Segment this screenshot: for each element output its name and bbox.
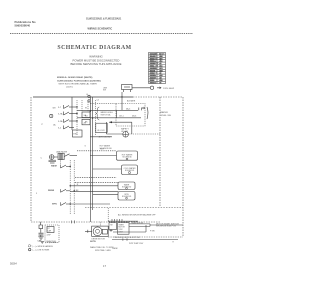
horizontal wires to right [70, 156, 121, 205]
header publications no [15, 20, 36, 28]
svg-text:R: R [173, 241, 175, 243]
svg-text:GLWS1233AS1 & FLWS1233AS1: GLWS1233AS1 & FLWS1233AS1 [86, 18, 122, 21]
svg-text:W: W [85, 107, 87, 109]
capacitor bars below filter [49, 159, 57, 161]
svg-text:P: P [42, 124, 44, 126]
power cord line [132, 87, 150, 89]
svg-text:WASH TIME: FILL TO SPIN: WASH TIME: FILL TO SPIN [90, 246, 114, 249]
svg-text:ALL WIRING SHOWN WITH MACHINE: ALL WIRING SHOWN WITH MACHINE OFF [118, 213, 156, 216]
timer console box bottom [31, 221, 160, 223]
bottom right pressure block [107, 208, 109, 221]
timer row labels [53, 107, 64, 130]
svg-text:60HZ: 60HZ [119, 231, 123, 233]
svg-text:SCHEMATIC DIAGRAM: SCHEMATIC DIAGRAM [57, 45, 131, 51]
cold water solenoid box [122, 165, 138, 175]
svg-text:( ⊥ ) = GND: ( ⊥ ) = GND [46, 241, 57, 244]
svg-text:DRIVE MOTOR: DRIVE MOTOR [92, 238, 106, 240]
svg-text:WASH: WASH [51, 165, 58, 168]
timer contact boxes [82, 112, 90, 118]
timer console box top [33, 96, 133, 98]
svg-text:WATER: WATER [160, 111, 168, 114]
water level brace and label [96, 107, 99, 120]
bus bottom ticks [71, 220, 73, 223]
svg-text:P SW: P SW [150, 230, 155, 232]
svg-text:AGITATE: AGITATE [127, 100, 136, 103]
legend symbols bottom left [41, 242, 45, 244]
svg-text:WTR TEMP 120V: WTR TEMP 120V [129, 243, 144, 245]
svg-text:O: O [85, 146, 87, 148]
water level contacts row2 [100, 117, 141, 119]
svg-text:C4: C4 [97, 100, 99, 102]
power plug circle [150, 86, 153, 89]
drive motor [92, 226, 109, 236]
svg-text:LID LOCK: LID LOCK [97, 130, 106, 132]
svg-text:17: 17 [103, 264, 106, 268]
junction dots lower [70, 166, 75, 205]
svg-text:CAP: CAP [38, 240, 43, 243]
right boundary dashed [182, 97, 184, 237]
water level switch dashed box [116, 104, 145, 127]
lower switch rows [61, 165, 71, 206]
svg-text:3-2: 3-2 [58, 128, 62, 130]
header separator rule [10, 33, 193, 35]
pressure bottom wire [112, 239, 178, 241]
svg-text:4A-5: 4A-5 [126, 107, 131, 110]
lower switch row 3 [60, 202, 62, 205]
hot water solenoid box [117, 151, 138, 160]
line breaker symbol [122, 85, 133, 93]
svg-text:3-7: 3-7 [58, 107, 62, 109]
svg-text:RINSE: RINSE [48, 190, 55, 192]
svg-text:5: 5 [36, 193, 38, 195]
junction dots [76, 106, 93, 121]
table text [150, 54, 165, 85]
wash solenoid box [118, 182, 135, 190]
svg-text:GLWS1233AS2, FLWS1233AS1 (ALMO: GLWS1233AS2, FLWS1233AS1 (ALMOND) [57, 79, 101, 82]
water level contacts row1 [100, 109, 138, 111]
svg-text:3-2A: 3-2A [58, 120, 63, 123]
lid lock box [96, 123, 107, 132]
lower row labels [36, 165, 58, 206]
svg-text:BEFORE SERVICING THIS APPLIANC: BEFORE SERVICING THIS APPLIANCE [70, 62, 121, 66]
timer console box left [30, 97, 32, 222]
ground [38, 236, 43, 238]
switch row 2 [64, 112, 70, 115]
svg-text:SWITCH 4A: SWITCH 4A [101, 113, 112, 116]
switch row 3 [64, 120, 70, 123]
lower switch row 1 [60, 165, 62, 168]
svg-text:BK: BK [85, 121, 88, 123]
svg-text:5M: 5M [53, 108, 56, 110]
svg-text:( - - ) = WIRE IN HARNESS: ( - - ) = WIRE IN HARNESS [32, 245, 54, 248]
main bus verticals [89, 97, 91, 222]
svg-text:5995038040: 5995038040 [15, 24, 31, 28]
svg-text:58264: 58264 [10, 263, 17, 266]
svg-text:SHOWN IN RUN POS: SHOWN IN RUN POS [156, 226, 177, 228]
timer area labels [50, 114, 53, 117]
svg-text:MODELS: GLWS1233AS1 (WHITE): MODELS: GLWS1233AS1 (WHITE) [57, 76, 93, 79]
inner dashed verticals lower [69, 160, 71, 215]
svg-text:CE-1: CE-1 [119, 116, 124, 118]
svg-text:47UF: 47UF [47, 235, 51, 237]
svg-text:(120V): (120V) [66, 87, 73, 89]
svg-text:C: C [41, 157, 43, 159]
svg-text:NOTE:: NOTE: [90, 241, 97, 243]
svg-text:1A: 1A [53, 123, 56, 126]
timer sub box [73, 130, 83, 137]
svg-text:TAN: TAN [150, 81, 154, 84]
spin solenoid box [118, 192, 135, 201]
svg-text:SPIN TIME: 5 MIN: SPIN TIME: 5 MIN [95, 250, 111, 252]
wire color legend table [149, 53, 166, 84]
power cord label [157, 87, 161, 89]
wire drop from cord [121, 92, 123, 97]
lower switch row 2 [60, 189, 62, 192]
noise filter cluster [49, 155, 54, 160]
inner dashed vertical [159, 97, 161, 207]
svg-text:( — ) = LINE IN TIMER: ( — ) = LINE IN TIMER [32, 250, 50, 252]
svg-text:CAP: CAP [48, 229, 52, 232]
timer terminal circles [88, 95, 90, 102]
svg-text:ESC: ESC [74, 134, 79, 136]
svg-text:TIMER MOTOR: TIMER MOTOR [131, 222, 144, 224]
switch row 1 [64, 106, 70, 109]
table text ink bars [150, 53, 163, 83]
timer switch rows [64, 105, 78, 129]
start capacitor dashed box [45, 225, 59, 242]
svg-text:SPIN: SPIN [52, 204, 57, 206]
wires across timer [77, 109, 100, 111]
svg-text:TM: TM [110, 225, 113, 227]
arrow line to timer [109, 121, 132, 123]
long dashed separator [85, 207, 183, 209]
svg-text:SW: SW [103, 90, 106, 92]
svg-text:WITH ELECTROMECHANICAL TIMER: WITH ELECTROMECHANICAL TIMER [59, 83, 98, 86]
bottom left capacitor chain [39, 222, 43, 233]
svg-text:LEVEL SW: LEVEL SW [160, 115, 172, 117]
switch row 4 [64, 126, 70, 129]
svg-text:BU: BU [85, 116, 88, 118]
svg-text:WIRING SCHEMATIC: WIRING SCHEMATIC [88, 27, 113, 30]
vertical from cord to WL box [121, 97, 123, 110]
svg-text:3-7A: 3-7A [58, 113, 63, 116]
svg-text:4B-6: 4B-6 [132, 116, 137, 118]
dashed ladder verticals [77, 100, 96, 135]
bottom right dashed bottom line [108, 236, 183, 238]
svg-text:120V 60HZ: 120V 60HZ [163, 88, 175, 90]
